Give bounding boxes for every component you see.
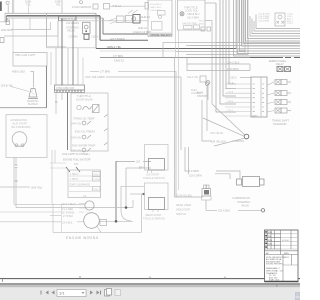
- svg-text:C1B: C1B: [94, 189, 99, 191]
- svg-text:ALTERNATOR: ALTERNATOR: [10, 118, 27, 122]
- page icons: [105, 290, 110, 297]
- wire diagonal 2 to junction: [203, 118, 244, 136]
- wire diagonals above cluster: [128, 10, 138, 14]
- svg-text:POS-A BLU: POS-A BLU: [150, 3, 162, 6]
- module U1 inner box: [158, 11, 166, 16]
- splice marks: [15, 165, 18, 168]
- arrows down: [66, 167, 80, 172]
- wire hooks from label rows into staircase: [250, 16, 300, 36]
- connector strip ticks: [57, 90, 81, 92]
- svg-text:ALT1 B RED: ALT1 B RED: [110, 37, 125, 41]
- sender exit arrows: [104, 115, 108, 146]
- front start toggle switch box: [145, 145, 169, 171]
- title block columns: [268, 230, 292, 255]
- svg-text:27 B BLK: 27 B BLK: [63, 215, 74, 218]
- wire double bottom of relay box: [47, 47, 98, 48]
- wire corner x181 down: [180, 77, 182, 150]
- wire vertical x176.5 second: [178, 30, 180, 190]
- wire 134 YEL BLK: [202, 100, 244, 141]
- wire from module top right: [205, 2, 216, 4]
- wire alternator drop 2 with splice: [15, 158, 17, 208]
- mode select module U1: [148, 0, 172, 37]
- ground junction circle: [244, 134, 249, 139]
- scrollbar gray band: [0, 283, 300, 285]
- svg-text:C7B1 C2B2 C1B: C7B1 C2B2 C1B: [56, 87, 74, 90]
- label MODE SELECT: [149, 33, 172, 37]
- wire riser x133: [132, 200, 134, 208]
- wire J23-C BRN upper: [185, 147, 240, 179]
- svg-text:C38 B: C38 B: [227, 101, 234, 103]
- svg-text:(034 YEL): (034 YEL): [31, 186, 42, 189]
- svg-text:114: 114: [268, 236, 271, 238]
- connector box W4: [145, 3, 149, 10]
- svg-text:TRANS OIL TEMP: TRANS OIL TEMP: [73, 117, 95, 121]
- wire riser x208: [207, 84, 209, 100]
- svg-text:4090-L BLK: 4090-L BLK: [12, 70, 25, 73]
- relay cluster K3: [126, 16, 133, 23]
- title block outer: [265, 230, 299, 282]
- svg-text:LT7 BRN: LT7 BRN: [100, 70, 110, 73]
- wires above strip: [50, 52, 52, 85]
- bus wire A (top horizontal, light): [5, 12, 96, 14]
- wire pair top-left: [13, 0, 14, 13]
- trans solenoid rows: [268, 82, 275, 85]
- fuel shutoff module box: [68, 170, 101, 198]
- svg-text:SWITCH: SWITCH: [176, 212, 186, 216]
- left bend of bus into lower box: [5, 13, 9, 21]
- svg-text:C20-7: C20-7: [287, 23, 294, 25]
- svg-text:7B8C+C2B-A WHT: 7B8C+C2B-A WHT: [15, 54, 36, 57]
- wire vertical x30: [29, 18, 31, 30]
- wire rows left edge: [0, 211, 61, 213]
- row connector boxes: [93, 172, 101, 177]
- gauge module U3 body: [251, 77, 267, 117]
- band tick: [276, 283, 277, 287]
- module rows: [69, 176, 92, 192]
- svg-text:ROUTED PER SPEC: ROUTED PER SPEC: [266, 264, 284, 266]
- valve squiggle: [83, 106, 92, 110]
- sheet bottom border: [0, 278, 300, 280]
- wire to corner x50: [11, 22, 51, 30]
- wire staircase bus from top edge: [234, 0, 301, 56]
- svg-text:C3A YEL BL: C3A YEL BL: [210, 132, 224, 135]
- wire 7 BRN row: [90, 70, 176, 72]
- front switch inner box: [149, 159, 165, 171]
- wire shelf y107.7: [0, 107, 47, 109]
- rear start toggle switch box: [145, 183, 169, 210]
- svg-text:344-A YEL: 344-A YEL: [187, 76, 199, 79]
- wire y57.5 dark right: [250, 57, 283, 59]
- wire vertical x13: [12, 18, 14, 53]
- wire to buzzer: [31, 72, 34, 88]
- svg-text:4HD-L2: 4HD-L2: [138, 26, 147, 30]
- wire J23-A row: [85, 76, 181, 78]
- throttle lock module U2: [178, 0, 206, 30]
- wire J23-C BLK to ground: [206, 200, 217, 210]
- rear switch inner box: [149, 198, 165, 210]
- wire alternator drop 1: [13, 158, 15, 205]
- svg-text:C1-A RED: C1-A RED: [62, 208, 73, 211]
- wire vertical x46.5 upper: [46, 13, 48, 47]
- relay THROTTLE label box: [59, 16, 77, 20]
- diagonal off big circle: [97, 227, 101, 233]
- svg-text:1240 BRN: 1240 BRN: [227, 68, 239, 71]
- svg-text:DWG: DWG: [284, 253, 289, 255]
- status toolbar: [0, 287, 300, 300]
- svg-text:GA: GA: [83, 195, 87, 198]
- wire y194 with dot: [130, 193, 145, 195]
- steering console box top edge: [58, 20, 148, 22]
- wire ALT1 B RED run: [100, 39, 148, 41]
- junction dot y221: [115, 220, 118, 223]
- wire y168 row: [126, 167, 151, 169]
- wire riser x236 to top: [235, 0, 237, 49]
- svg-text:2HD-L2: 2HD-L2: [141, 15, 150, 19]
- junction dot y207: [125, 206, 128, 209]
- svg-text:ENGINE WIRING: ENGINE WIRING: [66, 236, 99, 240]
- bracket vertical right: [61, 204, 63, 233]
- left verticals: [51, 150, 53, 204]
- wire J2A-C BLK: [187, 58, 250, 65]
- svg-text:C0-A BLK: C0-A BLK: [62, 221, 73, 224]
- svg-text:C22 A: C22 A: [230, 77, 237, 80]
- bus wire B main feed (dark): [7, 15, 101, 17]
- svg-text:FOAM SENSOR: FOAM SENSOR: [72, 5, 91, 9]
- svg-text:(AUX START: (AUX START: [12, 122, 28, 126]
- wire bend busA down to GRN-1 YEL: [95, 13, 97, 48]
- wire drop x62 top: [61, 0, 63, 13]
- wire 115B YEL drop: [7, 5, 9, 13]
- diode module D1: [84, 34, 89, 39]
- svg-text:HOLD: HOLD: [199, 23, 205, 25]
- svg-text:INDICATOR: INDICATOR: [176, 207, 190, 211]
- svg-text:J23: J23: [136, 161, 141, 164]
- tick T: [15, 180, 19, 182]
- svg-text:ME A: ME A: [139, 166, 145, 169]
- bus wire C: [8, 17, 103, 19]
- box top edge y44 right area: [163, 42, 300, 44]
- pigtail box: [184, 26, 193, 30]
- engine connector circle small: [85, 201, 94, 210]
- switch dark face: [204, 190, 209, 195]
- svg-text:1503: 1503: [285, 257, 289, 259]
- svg-text:C20-1: C20-1: [227, 110, 234, 112]
- wire J23 row: [116, 160, 151, 162]
- rear switch pins: [153, 210, 158, 213]
- connector box left edge: [0, 38, 4, 43]
- wire diagonal 3 to junction: [214, 138, 244, 146]
- alternator G1 circle: [12, 132, 27, 147]
- svg-text:YEL: YEL: [26, 2, 31, 6]
- svg-text:TOGGLE SWITCH): TOGGLE SWITCH): [143, 177, 165, 180]
- svg-text:150-A BRN: 150-A BRN: [187, 16, 199, 19]
- svg-text:OR STANDARD): OR STANDARD): [11, 125, 31, 129]
- svg-text:1C0-B YEL: 1C0-B YEL: [1, 85, 14, 88]
- sensor X marks: [277, 21, 285, 24]
- wire node drop: [28, 6, 30, 13]
- connector box at left of line: [100, 220, 107, 226]
- svg-text:C2C A: C2C A: [227, 81, 234, 84]
- title block header band: [265, 251, 299, 255]
- warning box with label: [13, 53, 47, 67]
- svg-text:RELAY: RELAY: [67, 28, 76, 32]
- title block grid rows left: [265, 234, 281, 249]
- title block grid rows right: [281, 234, 299, 249]
- svg-text:134 YEL BLK: 134 YEL BLK: [211, 140, 226, 143]
- fold tick marks: [3, 276, 226, 282]
- svg-text:SOLENOID: SOLENOID: [273, 122, 287, 126]
- connector box above emergency relays: [238, 50, 246, 54]
- svg-text:C1B: C1B: [94, 174, 99, 176]
- wire right edge x46.5 lower: [46, 66, 48, 108]
- relay K1 body: [83, 22, 91, 33]
- svg-text:STATION: STATION: [197, 95, 208, 98]
- svg-text:J23-C BLK: J23-C BLK: [218, 209, 230, 212]
- ground terminal circle: [261, 209, 264, 212]
- svg-text:ENG WATER TEMP: ENG WATER TEMP: [72, 144, 96, 148]
- wire from big circle to dot: [99, 220, 133, 222]
- wire corner x176 down: [175, 71, 177, 197]
- gauge module inner pin ticks: [253, 84, 265, 116]
- svg-text:4-21-94: 4-21-94: [282, 240, 289, 242]
- wire riser x174.5: [174, 58, 176, 198]
- engine wiring harness rows: [14, 203, 85, 205]
- zone col dark marks: [265, 232, 267, 247]
- alternator box: [6, 115, 47, 158]
- wire 1240 BRN: [187, 64, 250, 71]
- wire diagonal 1 to junction: [212, 104, 245, 135]
- module U1 lower box: [152, 22, 163, 31]
- valve door box: [93, 105, 100, 113]
- bottom bracket line: [53, 231, 142, 233]
- foam sensor circle: [80, 1, 83, 4]
- short horizontals: [50, 162, 66, 164]
- svg-text:LT7 BRN: LT7 BRN: [113, 55, 123, 58]
- svg-text:LOCK SOL: LOCK SOL: [185, 8, 199, 12]
- svg-text:STEERING: STEERING: [237, 200, 250, 204]
- right corner resize button: [296, 293, 301, 300]
- svg-text:P.O: P.O: [74, 163, 78, 166]
- svg-text:J2A-C BLK: J2A-C BLK: [227, 61, 240, 64]
- sensor circle: [278, 15, 282, 19]
- combination steering valve body: [237, 179, 242, 185]
- svg-text:2114: 2114: [268, 240, 272, 242]
- relay K1 coil circle: [84, 25, 88, 29]
- wire top link to module: [110, 5, 146, 7]
- svg-text:(27A-A BLU): (27A-A BLU): [62, 203, 76, 206]
- wire y197 to rear switch lead: [175, 196, 204, 198]
- steering console box left edge: [57, 21, 59, 48]
- wire y186: [121, 185, 145, 187]
- wire 4GAU RED run: [103, 33, 148, 35]
- wire J23-C BRN lower: [189, 147, 231, 179]
- svg-text:(C00-A WHT FLYWHEEL): (C00-A WHT FLYWHEEL): [62, 153, 90, 156]
- switch pins: [148, 170, 152, 173]
- svg-text:DOOR VALVE: DOOR VALVE: [76, 97, 93, 101]
- terminal box TB1: [6, 20, 10, 25]
- svg-text:4 GAU 1.2 RED: 4 GAU 1.2 RED: [133, 30, 151, 34]
- svg-text:ENG OIL PRESS: ENG OIL PRESS: [75, 130, 95, 134]
- wire bus y57.5 long: [100, 57, 250, 59]
- wire bend busB down: [99, 16, 101, 41]
- svg-text:THROTTLE: THROTTLE: [60, 17, 76, 21]
- wire bend busC down: [102, 18, 104, 34]
- wire bundle risers x220-229: [220, 0, 236, 104]
- connector strip pin row: [55, 90, 85, 92]
- svg-text:J23-C BRN: J23-C BRN: [189, 175, 202, 178]
- gauge module pin rows: [225, 84, 251, 116]
- module U1 circle: [159, 15, 162, 18]
- relay cluster K2: [117, 16, 125, 23]
- svg-text:4011 BLK: 4011 BLK: [1, 28, 12, 32]
- svg-text:RELAY: RELAY: [276, 63, 284, 66]
- dual station fuse box: [200, 76, 206, 82]
- W30 box: [194, 25, 200, 29]
- sender module box: [71, 93, 108, 151]
- wire riser x126: [125, 168, 127, 208]
- wire to corner x58: [4, 21, 58, 36]
- wire riser x121 + curve: [121, 186, 131, 221]
- svg-text:1/1: 1/1: [59, 290, 65, 295]
- svg-text:REAR USER: REAR USER: [176, 203, 191, 207]
- wire 034 YEL row: [0, 186, 30, 188]
- svg-text:(REAR START: (REAR START: [145, 214, 162, 217]
- svg-text:VALVE: VALVE: [241, 204, 249, 208]
- svg-text:GB0-1 BLU: GB0-1 BLU: [150, 7, 162, 9]
- svg-text:YEL: YEL: [56, 3, 61, 6]
- svg-text:C3B-A: C3B-A: [91, 35, 99, 38]
- notes column divider: [283, 255, 292, 282]
- connector strip X1: [55, 85, 85, 90]
- wire nested risers top right: [216, 0, 239, 43]
- svg-text:PULL: PULL: [199, 21, 205, 23]
- relay cluster K4: [133, 15, 140, 24]
- solenoid L1 circle: [180, 12, 184, 16]
- svg-text:GRN-1 YEL: GRN-1 YEL: [107, 45, 122, 49]
- wire from module right mid: [205, 20, 212, 22]
- wire GRN-1 YEL run: [96, 48, 236, 50]
- wires below strip: [55, 92, 57, 114]
- connector boxes below module U2: [201, 27, 205, 31]
- rear user indicator switch pins: [204, 185, 207, 189]
- svg-text:MODE SELECT: MODE SELECT: [151, 33, 173, 37]
- wire diagonal to buzzer: [11, 87, 29, 92]
- svg-text:C400-C2: C400-C2: [114, 59, 125, 62]
- warning buzzer bell: [29, 89, 37, 98]
- bracket vertical left: [52, 204, 54, 233]
- wire diagonals into relay cluster: [108, 18, 117, 24]
- svg-text:BUZZER: BUZZER: [28, 103, 38, 106]
- wire y51: [100, 50, 176, 52]
- svg-text:4HD-L2: 4HD-L2: [112, 4, 121, 8]
- svg-text:LOADER: LOADER: [191, 92, 201, 95]
- relay K4 coil circle: [132, 17, 136, 21]
- short links to circles: [79, 204, 86, 213]
- svg-text:TOGGLE SWITCH): TOGGLE SWITCH): [143, 218, 165, 221]
- fuse F1 circle top-left: [6, 1, 9, 4]
- svg-text:COMBINATION: COMBINATION: [232, 196, 250, 200]
- bracket vertical right: [141, 194, 143, 232]
- svg-text:1 HECU: 1 HECU: [70, 174, 79, 176]
- wire riser x116 dark: [115, 161, 117, 221]
- dual station circle: [206, 81, 210, 85]
- connector box W2: [93, 4, 98, 9]
- page input field: [57, 290, 86, 297]
- wire riser x216: [216, 3, 236, 112]
- fuel sender circle: [205, 82, 208, 85]
- svg-text:LT1B: LT1B: [94, 179, 100, 181]
- wire C22 stub: [240, 77, 251, 79]
- engine connector circle big: [84, 213, 100, 229]
- gauge module divider: [260, 77, 262, 117]
- wire fuel drop: [206, 86, 208, 132]
- wire riser x212: [211, 21, 213, 105]
- wire into big circle: [77, 221, 84, 223]
- relay contact boxes: [277, 67, 283, 72]
- svg-text:(GS START: (GS START: [146, 174, 160, 177]
- svg-text:C72 A: C72 A: [227, 91, 233, 94]
- valve symbol circle: [77, 105, 81, 109]
- svg-text:TEMP CLEARANCE: TEMP CLEARANCE: [69, 184, 90, 187]
- connector block J1 (dark, top-left corner): [0, 2, 2, 12]
- svg-text:L13 EB: L13 EB: [251, 115, 258, 117]
- title block bottom bar: [265, 281, 299, 283]
- toolbar nav buttons: [41, 291, 55, 295]
- svg-text:(034A YE): (034A YE): [71, 136, 82, 139]
- svg-text:323-A BRN: 323-A BRN: [92, 76, 105, 79]
- rear user indicator switch body: [202, 189, 211, 197]
- hook into emergency relays: [249, 64, 251, 71]
- svg-text:C24-3 BRN: C24-3 BRN: [258, 21, 270, 23]
- switch base: [202, 196, 212, 200]
- svg-text:J23-B-YEL-BLK: J23-B-YEL-BLK: [176, 195, 193, 197]
- svg-text:J23-C BRN: J23-C BRN: [186, 170, 199, 173]
- alternator terminals: [15, 144, 18, 147]
- relay K1 contact dot: [85, 30, 87, 32]
- sensor module top right: [275, 13, 285, 26]
- wire stub left edge: [0, 21, 5, 23]
- svg-text:2107: 2107: [268, 232, 272, 234]
- svg-text:1 HPTO: 1 HPTO: [70, 179, 78, 181]
- connector box W3: [104, 4, 110, 10]
- svg-text:(344A YE): (344A YE): [71, 122, 82, 125]
- svg-text:ENGINE FUEL SHUTOFF: ENGINE FUEL SHUTOFF: [63, 158, 91, 161]
